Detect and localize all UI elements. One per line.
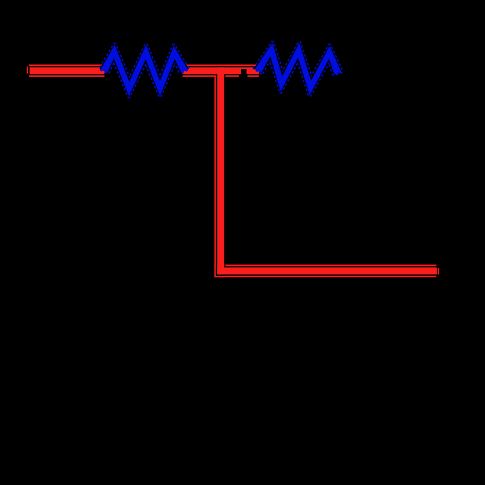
wire: left horizontal outline <box>28 66 104 75</box>
resistor R1 outline (black band) <box>100 43 189 97</box>
wire: middle horizontal outline <box>183 66 260 75</box>
wire: bottom horizontal outline <box>216 266 438 276</box>
resistor R1 halo (dashed blue fringe dots) <box>100 43 189 97</box>
wire: bottom right end cap halo line <box>438 268 439 275</box>
wire: vertical outline <box>216 66 225 276</box>
wire: bottom horizontal halo <box>214 265 436 278</box>
wire: middle horizontal halo <box>183 65 260 77</box>
wire: left end cap halo line <box>27 66 28 73</box>
glyph mark on middle wire (black numeral stem) <box>241 69 247 75</box>
wire: bottom horizontal core <box>217 267 437 274</box>
wire: middle horizontal core <box>183 67 260 74</box>
resistor R1 core (blue zigzag) <box>101 45 188 97</box>
resistor R2 halo (dashed blue fringe dots) <box>254 41 343 96</box>
wire: vertical halo <box>214 65 225 278</box>
wire: left horizontal core <box>30 67 105 74</box>
wire: left horizontal halo <box>29 65 105 77</box>
wire: vertical core <box>217 67 224 274</box>
resistor R2 core (blue zigzag) <box>255 43 342 96</box>
resistor R2 outline (black band) <box>254 41 343 96</box>
